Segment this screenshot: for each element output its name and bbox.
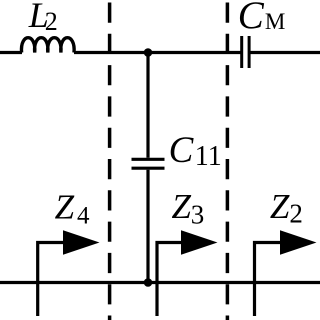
svg-text:3: 3 — [191, 199, 205, 229]
svg-text:4: 4 — [77, 203, 90, 230]
svg-text:C: C — [238, 0, 265, 37]
svg-text:Z: Z — [172, 187, 192, 226]
svg-text:M: M — [265, 9, 285, 34]
svg-text:2: 2 — [289, 198, 303, 228]
svg-text:Z: Z — [270, 187, 290, 226]
svg-text:C: C — [169, 130, 195, 171]
svg-text:Z: Z — [55, 188, 75, 227]
svg-text:2: 2 — [45, 7, 58, 36]
svg-text:11: 11 — [195, 141, 222, 172]
